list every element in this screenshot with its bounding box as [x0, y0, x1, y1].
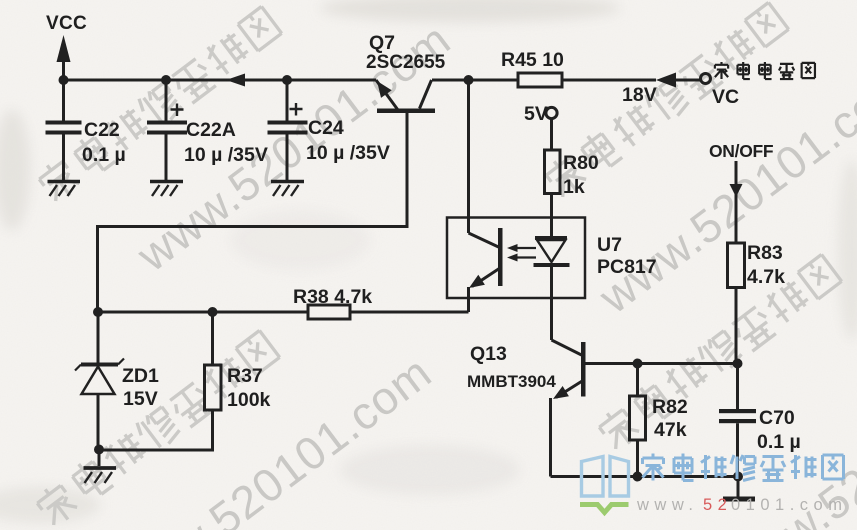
capacitor C22A plus sign — [171, 104, 184, 117]
resistor R82 — [636, 364, 639, 397]
ground under C22A — [150, 180, 183, 183]
svg-text:Q7: Q7 — [369, 32, 395, 54]
wire R38 to opto emitter — [350, 311, 469, 314]
terminal circle VC input — [701, 74, 711, 84]
capacitor C22A — [165, 80, 168, 121]
wire mid rail to R38 — [98, 311, 309, 314]
capacitor C70 — [736, 364, 739, 410]
node bottom rail junctions — [633, 472, 643, 482]
logo hanzi blue text — [643, 454, 844, 481]
watermark band: hanzi top-right — [542, 1, 789, 201]
svg-text:R83: R83 — [747, 242, 783, 264]
wire top rail right — [432, 79, 700, 82]
wire LED cathode to Q13 — [550, 267, 553, 340]
svg-text:0.1 µ: 0.1 µ — [82, 144, 126, 166]
svg-text:52: 52 — [703, 496, 732, 514]
opto U7 phototransistor emitter — [472, 268, 500, 287]
watermark band: hanzi top-left — [35, 5, 282, 205]
svg-text:10 µ /35V: 10 µ /35V — [306, 142, 390, 164]
svg-text:0101.com: 0101.com — [731, 496, 847, 514]
svg-text:R80: R80 — [563, 152, 599, 174]
transistor Q7 base bar — [377, 109, 435, 114]
wire opto input from rail — [467, 80, 470, 233]
svg-text:R45 10: R45 10 — [501, 49, 564, 71]
svg-text:100k: 100k — [227, 389, 271, 411]
resistor R80 — [550, 119, 553, 150]
svg-text:VC: VC — [712, 86, 739, 108]
VCC arrow — [62, 44, 65, 80]
watermark band: hanzi lower-left — [33, 329, 280, 529]
wire opto emitter exit — [467, 287, 470, 312]
opto U7 phototransistor bar — [498, 228, 503, 286]
svg-text:C22: C22 — [84, 119, 120, 141]
svg-text:1k: 1k — [563, 176, 585, 198]
node ZD1 bottom junction — [94, 445, 104, 455]
capacitor C24 — [286, 80, 289, 121]
svg-text:18V: 18V — [622, 84, 657, 106]
wire arrow right-rail — [656, 73, 676, 88]
ground under C24 — [271, 180, 304, 183]
wire Q13 base — [586, 362, 738, 365]
svg-text:C24: C24 — [308, 117, 344, 139]
op-to box U7 — [447, 218, 585, 299]
capacitor C22 — [62, 80, 65, 121]
transistor Q7 emitter — [376, 80, 398, 110]
wire Q13 emitter down — [549, 398, 552, 477]
svg-text:VCC: VCC — [46, 13, 87, 34]
svg-text:U7: U7 — [597, 234, 622, 256]
LED in U7 — [535, 236, 567, 240]
svg-text:R37: R37 — [227, 365, 263, 387]
svg-text:10 µ /35V: 10 µ /35V — [184, 144, 268, 166]
svg-text:C70: C70 — [759, 407, 795, 429]
svg-text:5V: 5V — [524, 103, 548, 125]
resistor R83 — [728, 243, 745, 288]
svg-text:PC817: PC817 — [597, 256, 657, 278]
transistor Q7 collector — [420, 80, 432, 109]
svg-text:R38 4.7k: R38 4.7k — [293, 286, 372, 308]
ground under C22 — [48, 180, 81, 183]
zener ZD1 — [97, 312, 100, 363]
resistor R45 — [518, 73, 562, 87]
transistor Q13 bar — [581, 342, 586, 397]
svg-text:4.7k: 4.7k — [747, 266, 785, 288]
svg-text:MMBT3904: MMBT3904 — [467, 372, 556, 391]
transistor Q13 collector — [552, 340, 582, 355]
watermark band: hanzi mid-right — [595, 253, 842, 453]
svg-text:0.1 µ: 0.1 µ — [757, 431, 801, 453]
wire bottom rail — [551, 475, 739, 478]
svg-text:Q13: Q13 — [470, 343, 507, 365]
svg-text:C22A: C22A — [186, 119, 236, 141]
resistor R37 — [211, 312, 214, 365]
wire Q7 base down and left — [98, 113, 408, 312]
svg-text:ON/OFF: ON/OFF — [709, 141, 774, 161]
terminal circle 5V — [546, 107, 557, 118]
node VCC rail junctions — [59, 75, 69, 85]
svg-text:47k: 47k — [654, 419, 687, 441]
svg-text:ZD1: ZD1 — [122, 365, 159, 387]
resistor R38 — [308, 305, 350, 319]
svg-text:2SC2655: 2SC2655 — [366, 52, 446, 73]
ground under ZD1 — [98, 450, 101, 467]
logo open book left page — [582, 457, 604, 497]
label from-aux-power hanzi — [715, 62, 815, 79]
svg-text:15V: 15V — [123, 388, 158, 410]
svg-text:R82: R82 — [652, 396, 688, 418]
wire arrow mid-rail — [226, 74, 245, 87]
wire ON/OFF with arrow — [735, 161, 738, 243]
ground bar bottom right — [737, 477, 740, 498]
logo open book right page — [610, 457, 629, 497]
node mid-left junctions — [93, 307, 103, 317]
light arrows in U7 — [517, 247, 536, 249]
logo green swoosh — [580, 505, 629, 513]
node base rail junctions — [633, 359, 643, 369]
svg-text:www.: www. — [636, 496, 698, 514]
opto U7 phototransistor collector — [469, 233, 499, 247]
transistor Q13 emitter — [556, 381, 583, 398]
capacitor C24 plus sign — [290, 103, 303, 116]
wire LED anode from R80 — [550, 194, 553, 237]
wire top rail left — [64, 79, 377, 82]
